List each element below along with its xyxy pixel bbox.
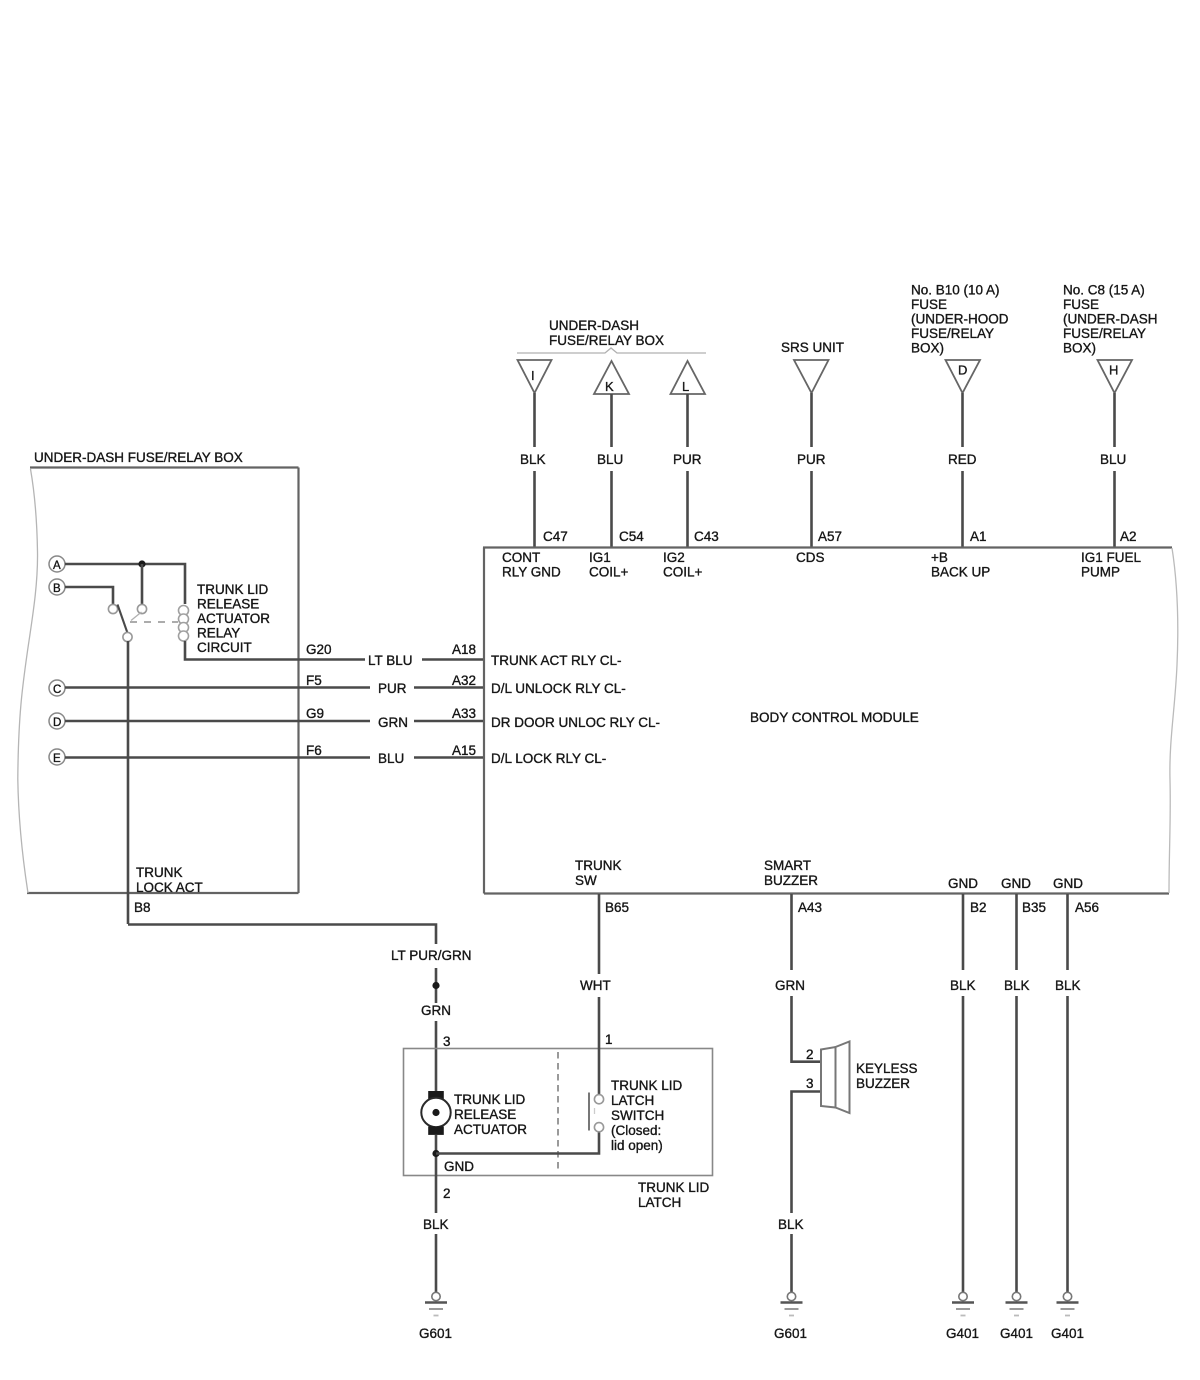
relay actuation dashed link	[130, 621, 178, 623]
svg-text:2: 2	[806, 1047, 814, 1062]
svg-text:2: 2	[443, 1186, 451, 1201]
ground G401 (first)	[952, 1292, 974, 1315]
svg-text:GND: GND	[1001, 876, 1031, 891]
svg-text:TRUNK LID: TRUNK LID	[638, 1180, 710, 1195]
svg-text:BOX): BOX)	[911, 340, 944, 355]
junction under motor	[432, 1150, 439, 1157]
wire L to BCM pin C43 (PUR)	[686, 394, 689, 547]
svg-text:C: C	[53, 684, 61, 696]
svg-text:B2: B2	[970, 900, 987, 915]
svg-text:No. B10 (10 A): No. B10 (10 A)	[911, 283, 1000, 298]
svg-text:H: H	[1109, 363, 1118, 378]
svg-text:lid open): lid open)	[611, 1138, 663, 1153]
svg-text:D: D	[958, 363, 967, 378]
svg-text:A18: A18	[452, 642, 476, 657]
svg-text:FUSE: FUSE	[911, 297, 947, 312]
svg-text:CIRCUIT: CIRCUIT	[197, 640, 252, 655]
connector SRS (inverted triangle)	[794, 360, 829, 393]
connector H (inverted triangle)	[1098, 360, 1133, 393]
box under-dash fuse/relay outline	[18, 468, 299, 894]
svg-text:GRN: GRN	[378, 715, 408, 730]
svg-text:ACTUATOR: ACTUATOR	[197, 611, 270, 626]
label TRUNK LID LATCH (below box)	[638, 1180, 710, 1210]
BCM internal bottom labels	[575, 858, 1083, 891]
svg-text:GND: GND	[1053, 876, 1083, 891]
svg-text:E: E	[53, 753, 61, 765]
svg-text:BLU: BLU	[597, 452, 623, 467]
svg-text:COIL+: COIL+	[663, 565, 703, 580]
label UNDER-DASH FUSE/RELAY BOX (top center)	[549, 318, 664, 348]
relay switch contact (from B)	[108, 604, 117, 613]
svg-text:A56: A56	[1075, 900, 1099, 915]
svg-text:TRUNK: TRUNK	[575, 858, 622, 873]
svg-text:LATCH: LATCH	[611, 1093, 654, 1108]
wire E to A15 (BLU)	[65, 756, 483, 759]
wire from A to relay coil	[65, 564, 185, 604]
svg-text:A33: A33	[452, 706, 476, 721]
svg-text:BACK UP: BACK UP	[931, 565, 990, 580]
svg-text:BLK: BLK	[1004, 978, 1030, 993]
svg-text:G401: G401	[1000, 1326, 1033, 1341]
svg-text:FUSE/RELAY: FUSE/RELAY	[911, 326, 994, 341]
wire B35 to G401 (BLK)	[1015, 894, 1018, 1292]
wire junction to latch switch	[436, 1131, 599, 1154]
wire D to A33 (GRN)	[65, 720, 483, 723]
connector D (inverted triangle)	[946, 360, 981, 393]
connector I (inverted triangle)	[518, 360, 552, 393]
ground G601 (right)	[781, 1292, 803, 1315]
svg-text:BUZZER: BUZZER	[764, 873, 818, 888]
svg-text:BUZZER: BUZZER	[856, 1076, 910, 1091]
svg-text:PUMP: PUMP	[1081, 565, 1120, 580]
wire A43 to buzzer (GRN)	[790, 894, 793, 1063]
svg-text:(UNDER-HOOD: (UNDER-HOOD	[911, 312, 1009, 327]
wire motor to ground junction	[435, 1135, 438, 1176]
wire switch common down to box exit (B8)	[127, 641, 130, 924]
svg-text:A: A	[53, 560, 61, 572]
svg-text:A2: A2	[1120, 529, 1137, 544]
svg-text:GND: GND	[444, 1159, 474, 1174]
wire A56 to G401 (BLK)	[1066, 894, 1069, 1292]
svg-text:LOCK ACT: LOCK ACT	[136, 880, 203, 895]
buzzer keyless symbol	[821, 1042, 850, 1114]
svg-text:No. C8 (15 A): No. C8 (15 A)	[1063, 283, 1145, 298]
wire B2 to G401 (BLK)	[962, 894, 965, 1292]
svg-text:B: B	[53, 583, 61, 595]
relay coil L1	[179, 606, 189, 642]
svg-text:K: K	[605, 379, 614, 394]
svg-text:G401: G401	[946, 1326, 979, 1341]
svg-text:IG2: IG2	[663, 550, 685, 565]
svg-text:3: 3	[806, 1076, 814, 1091]
wire to buzzer pin 2	[792, 1060, 822, 1063]
svg-text:RELEASE: RELEASE	[197, 597, 259, 612]
svg-text:RELAY: RELAY	[197, 626, 240, 641]
svg-text:TRUNK LID: TRUNK LID	[611, 1078, 683, 1093]
svg-text:C47: C47	[543, 529, 568, 544]
wire actuator to G601 (BLK)	[435, 1176, 438, 1293]
node D	[49, 713, 65, 729]
svg-text:D/L UNLOCK RLY CL-: D/L UNLOCK RLY CL-	[491, 681, 626, 696]
svg-text:DR DOOR UNLOC RLY CL-: DR DOOR UNLOC RLY CL-	[491, 715, 660, 730]
svg-text:RELEASE: RELEASE	[454, 1107, 516, 1122]
node A (connector pin circle)	[49, 556, 65, 572]
svg-text:IG1: IG1	[589, 550, 611, 565]
relay switch contact (from A)	[137, 604, 146, 613]
svg-text:G20: G20	[306, 642, 332, 657]
svg-text:GRN: GRN	[775, 978, 805, 993]
svg-text:FUSE/RELAY BOX: FUSE/RELAY BOX	[549, 333, 664, 348]
svg-text:C54: C54	[619, 529, 644, 544]
svg-text:LT PUR/GRN: LT PUR/GRN	[391, 948, 472, 963]
svg-text:ACTUATOR: ACTUATOR	[454, 1122, 527, 1137]
svg-text:GND: GND	[948, 876, 978, 891]
svg-text:A1: A1	[970, 529, 987, 544]
svg-text:TRUNK ACT RLY CL-: TRUNK ACT RLY CL-	[491, 653, 622, 668]
bracket over connectors I K L	[517, 348, 706, 353]
label KEYLESS BUZZER	[856, 1061, 918, 1091]
ground G601 (left)	[425, 1292, 447, 1315]
BCM internal left labels	[491, 653, 660, 766]
svg-text:B65: B65	[605, 900, 629, 915]
connector K (upright triangle)	[594, 361, 629, 394]
svg-text:G401: G401	[1051, 1326, 1084, 1341]
node E	[49, 749, 65, 765]
svg-text:I: I	[531, 368, 535, 383]
svg-text:KEYLESS: KEYLESS	[856, 1061, 918, 1076]
svg-text:A32: A32	[452, 673, 476, 688]
wire segment to G601 right	[790, 1234, 793, 1292]
label fuse No. C8	[1063, 283, 1158, 356]
wire G20 to A18 (LT BLU), right segment	[422, 658, 483, 661]
svg-text:G601: G601	[774, 1326, 807, 1341]
svg-text:BLK: BLK	[520, 452, 546, 467]
svg-text:BLK: BLK	[423, 1217, 449, 1232]
svg-text:BLK: BLK	[1055, 978, 1081, 993]
svg-text:L: L	[682, 379, 689, 394]
svg-text:PUR: PUR	[797, 452, 826, 467]
svg-text:CONT: CONT	[502, 550, 540, 565]
wire I to BCM pin C47 (BLK)	[533, 393, 536, 547]
svg-text:BLU: BLU	[1100, 452, 1126, 467]
svg-text:PUR: PUR	[673, 452, 702, 467]
svg-text:FUSE/RELAY: FUSE/RELAY	[1063, 326, 1146, 341]
motor trunk lid release actuator	[421, 1091, 450, 1135]
svg-text:TRUNK LID: TRUNK LID	[454, 1092, 526, 1107]
svg-text:D: D	[53, 717, 61, 729]
wire SRS to BCM pin A57 (PUR)	[810, 393, 813, 547]
wire H to BCM pin A2 (BLU)	[1113, 393, 1116, 547]
svg-text:RLY GND: RLY GND	[502, 565, 561, 580]
svg-text:TRUNK: TRUNK	[136, 865, 183, 880]
svg-text:FUSE: FUSE	[1063, 297, 1099, 312]
svg-text:BLK: BLK	[950, 978, 976, 993]
svg-text:CDS: CDS	[796, 550, 825, 565]
wire from B to relay switch	[65, 587, 113, 604]
wire junction to relay switch fixed contact	[141, 564, 144, 604]
relay switch common contact	[123, 632, 132, 641]
svg-text:A43: A43	[798, 900, 822, 915]
wire D to BCM pin A1 (RED)	[961, 393, 964, 547]
connector L (upright triangle)	[671, 361, 706, 394]
relay switch alternate blade (faint)	[131, 612, 142, 621]
box trunk lid latch outline	[404, 1049, 713, 1176]
node B	[49, 579, 65, 595]
wire buzzer pin 3 down to BLK	[792, 1092, 822, 1214]
svg-text:1: 1	[605, 1032, 613, 1047]
svg-text:TRUNK LID: TRUNK LID	[197, 582, 269, 597]
svg-text:BODY CONTROL MODULE: BODY CONTROL MODULE	[750, 710, 919, 725]
switch trunk lid latch contacts	[589, 1093, 604, 1132]
svg-text:G601: G601	[419, 1326, 452, 1341]
wire K to BCM pin C54 (BLU)	[610, 394, 613, 547]
svg-text:SRS UNIT: SRS UNIT	[781, 340, 844, 355]
ground G401 (second)	[1006, 1292, 1028, 1315]
junction splice on actuator wire	[432, 982, 439, 989]
svg-text:PUR: PUR	[378, 681, 407, 696]
svg-text:(Closed:: (Closed:	[611, 1123, 661, 1138]
node C	[49, 680, 65, 696]
svg-text:BLU: BLU	[378, 751, 404, 766]
svg-text:BLK: BLK	[778, 1217, 804, 1232]
svg-text:BOX): BOX)	[1063, 340, 1096, 355]
svg-text:UNDER-DASH: UNDER-DASH	[549, 318, 639, 333]
svg-text:SW: SW	[575, 873, 597, 888]
label TRUNK LOCK ACT	[136, 865, 203, 895]
label TRUNK LID RELEASE ACTUATOR	[454, 1092, 527, 1137]
svg-text:D/L LOCK RLY CL-: D/L LOCK RLY CL-	[491, 751, 606, 766]
label TRUNK LID RELEASE ACTUATOR RELAY CIRCUIT	[197, 582, 270, 655]
svg-text:3: 3	[443, 1034, 451, 1049]
BCM internal top labels	[502, 550, 1142, 725]
svg-text:F5: F5	[306, 673, 322, 688]
op box BCM outline	[483, 548, 1178, 894]
wire B65 to latch switch (WHT)	[598, 894, 601, 1095]
svg-text:GRN: GRN	[421, 1003, 451, 1018]
svg-text:(UNDER-DASH: (UNDER-DASH	[1063, 312, 1158, 327]
svg-text:+B: +B	[931, 550, 948, 565]
wire segment to latch box	[435, 1021, 438, 1091]
label fuse No. B10	[911, 283, 1009, 356]
svg-text:B35: B35	[1022, 900, 1046, 915]
svg-text:A15: A15	[452, 743, 476, 758]
ground G401 (third)	[1057, 1292, 1079, 1315]
svg-text:LT BLU: LT BLU	[368, 653, 413, 668]
svg-text:C43: C43	[694, 529, 719, 544]
svg-text:SWITCH: SWITCH	[611, 1108, 664, 1123]
svg-text:F6: F6	[306, 743, 322, 758]
junction on A wire	[138, 560, 145, 567]
svg-text:COIL+: COIL+	[589, 565, 629, 580]
wire B8 down and across to actuator	[128, 925, 436, 945]
svg-text:RED: RED	[948, 452, 977, 467]
wire C to A32 (PUR)	[65, 686, 483, 689]
svg-text:WHT: WHT	[580, 978, 611, 993]
wire coil bottom to G20 row	[185, 641, 365, 660]
svg-text:G9: G9	[306, 706, 324, 721]
svg-text:UNDER-DASH FUSE/RELAY BOX: UNDER-DASH FUSE/RELAY BOX	[34, 450, 243, 465]
wire segment below label	[435, 968, 438, 1003]
svg-text:SMART: SMART	[764, 858, 811, 873]
svg-text:IG1 FUEL: IG1 FUEL	[1081, 550, 1142, 565]
dashed divider inside latch box	[557, 1052, 559, 1173]
label TRUNK LID LATCH SWITCH (Closed: lid open)	[611, 1078, 683, 1153]
svg-text:A57: A57	[818, 529, 842, 544]
svg-text:LATCH: LATCH	[638, 1195, 681, 1210]
relay switch blade	[118, 605, 128, 634]
svg-text:B8: B8	[134, 900, 151, 915]
